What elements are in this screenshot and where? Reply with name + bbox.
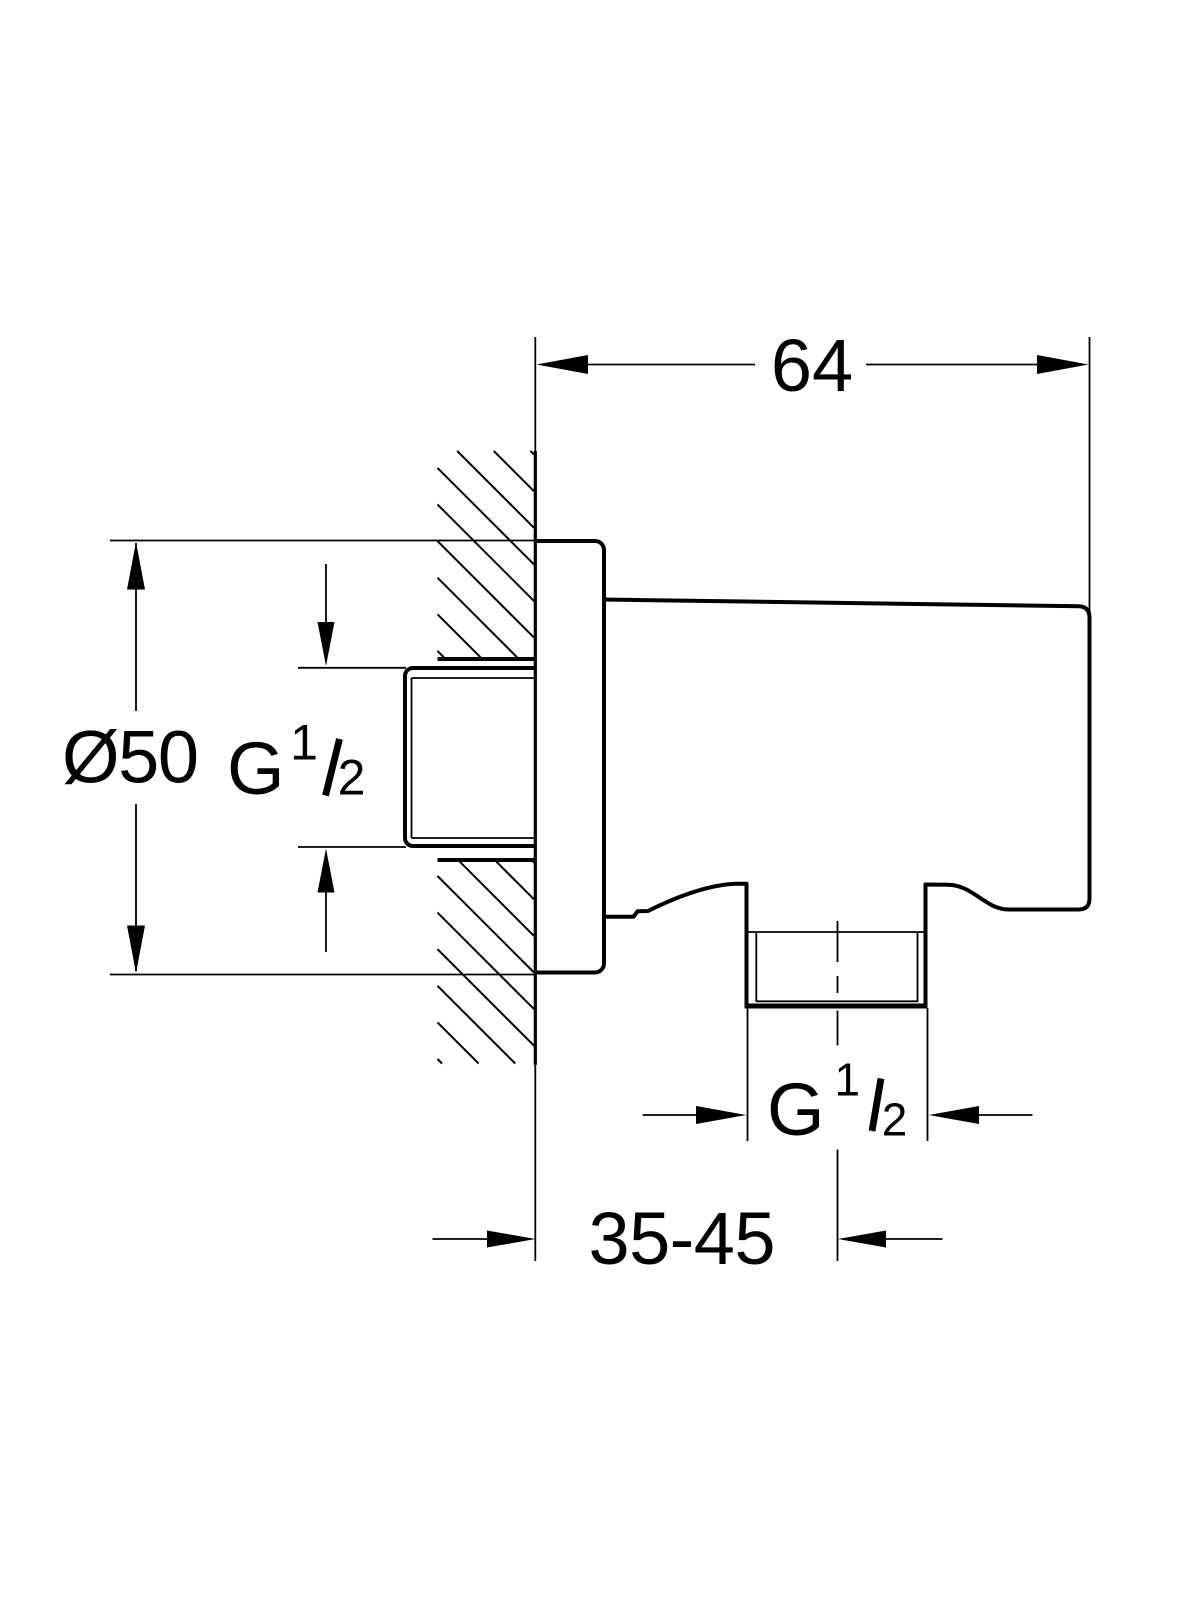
svg-text:2: 2	[338, 750, 366, 806]
svg-text:1: 1	[835, 1054, 861, 1106]
svg-text:35-45: 35-45	[589, 1197, 776, 1280]
svg-text:64: 64	[771, 324, 853, 407]
svg-text:1: 1	[290, 715, 318, 771]
svg-text:G: G	[767, 1068, 825, 1151]
svg-text:Ø50: Ø50	[62, 716, 199, 799]
svg-text:G: G	[227, 727, 285, 810]
svg-text:2: 2	[882, 1094, 908, 1146]
